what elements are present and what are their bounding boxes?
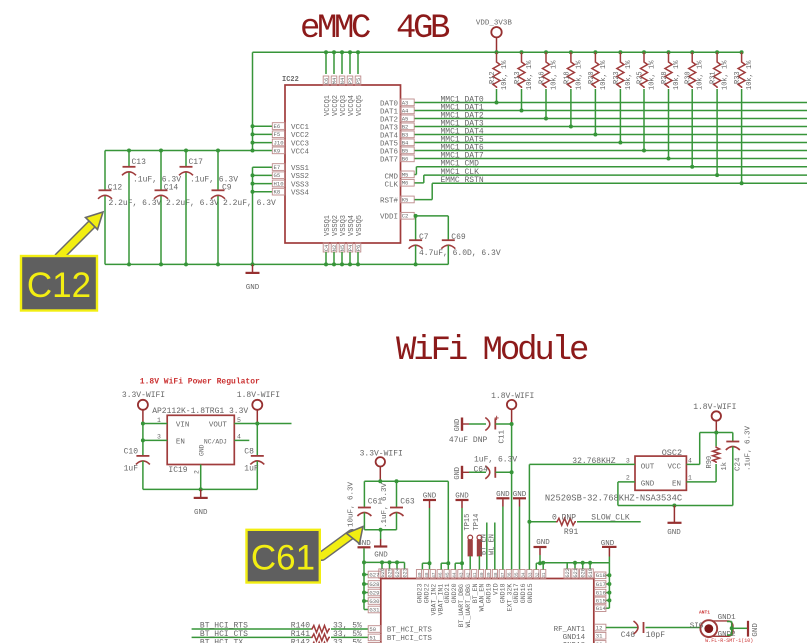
svg-text:R31: R31 [710,71,718,84]
svg-text:N4: N4 [340,78,346,84]
svg-text:37: 37 [501,572,506,578]
pin N2 VSSQ2 [331,215,340,266]
svg-text:DAT1: DAT1 [380,108,399,116]
svg-text:3: 3 [626,457,630,464]
wire 1.8V osc rail [700,431,733,435]
label pin name EXT_32K [506,584,513,612]
svg-text:IC22: IC22 [282,76,299,84]
svg-text:G27: G27 [369,571,379,578]
wire VOUT pin5 [234,422,291,426]
svg-text:G25: G25 [388,568,394,577]
svg-text:G30: G30 [369,598,380,605]
pin G29 [364,589,381,596]
pin 41 module top [472,570,479,579]
svg-text:10uF, 6.3V: 10uF, 6.3V [348,481,356,527]
svg-text:G18: G18 [596,572,606,579]
wire net MMC1_DAT4 [414,127,807,136]
pin 44 module top [451,570,458,579]
pin 43 module top [458,570,465,579]
svg-text:C10: C10 [124,447,139,456]
svg-text:VDDI: VDDI [380,214,398,222]
svg-text:GND14: GND14 [563,634,586,642]
capacitor C63 [381,481,415,530]
resistor R28 10k 1% [661,50,681,160]
svg-text:0 DNP: 0 DNP [552,514,576,523]
svg-text:DAT7: DAT7 [380,156,398,164]
wire 3.3V to module pins 46 45 [441,481,450,569]
svg-text:10k, 1%: 10k, 1% [526,60,534,90]
svg-text:B5: B5 [402,147,409,154]
svg-text:GND: GND [374,552,388,560]
label pin name BT_EN [472,583,479,603]
svg-text:C2: C2 [402,213,409,220]
svg-text:C6: C6 [324,78,330,84]
pin 30 [563,641,606,643]
svg-text:1.8V-WIFI: 1.8V-WIFI [237,391,280,400]
svg-text:RF_ANT1: RF_ANT1 [554,626,586,634]
svg-text:DAT5: DAT5 [380,140,399,148]
resistor R33 10k 1% [734,50,754,185]
svg-text:RST#: RST# [380,197,399,205]
svg-text:G21: G21 [573,568,579,577]
svg-text:10k, 1%: 10k, 1% [746,60,754,90]
wire net BT_HCI_TX with resistor R142 [192,638,369,643]
svg-text:P3: P3 [348,78,354,84]
svg-text:VSSQ2: VSSQ2 [332,215,340,236]
svg-text:42: 42 [466,572,471,578]
pin B6 DAT7 [380,155,414,164]
svg-text:R18: R18 [563,71,571,84]
svg-text:10k, 1%: 10k, 1% [697,60,705,90]
pin G28 [364,581,381,588]
svg-text:38: 38 [494,572,499,578]
wire net EMMC_RSTN [432,176,807,185]
wire left gnd vertical [362,548,366,609]
ground module pins 44 43 [455,493,469,570]
svg-text:GND: GND [641,480,655,488]
resistor R23 10k 1% [613,50,633,144]
svg-text:G29: G29 [369,589,379,596]
svg-text:VCC3: VCC3 [291,140,310,148]
svg-text:10k, 1%: 10k, 1% [673,60,681,90]
svg-text:R13: R13 [514,71,522,84]
power symbol 3.3V-WIFI regulator input [122,391,165,423]
pin 31 module top [541,570,548,579]
op-amp OSC2 oscillator body [626,448,692,491]
svg-text:VDD_3V3B: VDD_3V3B [476,20,513,28]
svg-text:R23: R23 [613,71,621,84]
svg-text:M5: M5 [402,171,409,178]
svg-text:A5: A5 [402,115,409,122]
svg-text:C13: C13 [132,158,147,167]
callout arrow to C61 [322,527,363,556]
svg-text:49: 49 [418,572,423,578]
pin B5 DAT6 [380,147,414,156]
svg-text:R16: R16 [539,71,547,84]
capacitor C69 [441,216,466,265]
ground module pin 35 [513,491,527,570]
test point TP15 [464,514,473,570]
svg-text:VSSQ1: VSSQ1 [324,215,332,236]
svg-text:10k, 1%: 10k, 1% [501,60,509,90]
svg-text:M6: M6 [402,180,409,187]
pin G16 [595,589,606,596]
power symbol 1.8V-WIFI module [491,392,534,424]
svg-text:G16: G16 [596,590,606,597]
pin G25 [386,568,393,578]
op-amp IC19 regulator AP2112K [152,407,248,475]
svg-text:C46: C46 [621,631,636,640]
node WL_EN stub [488,523,496,570]
svg-text:P5: P5 [356,78,362,84]
svg-text:SIG: SIG [690,622,704,630]
svg-text:10pF: 10pF [646,631,665,640]
svg-text:G31: G31 [369,606,380,613]
wire net MMC1_CMD [416,160,807,169]
pin A4 DAT1 [380,107,414,116]
ground module right [601,540,617,563]
svg-text:VSSQ5: VSSQ5 [356,215,364,236]
svg-text:G20: G20 [581,568,587,577]
svg-text:1uF, 6.3V: 1uF, 6.3V [474,455,517,464]
svg-text:P6: P6 [356,245,362,251]
capacitor C24 [726,425,753,505]
capacitor C10 [124,424,150,490]
pin 49 module top [416,570,423,579]
label pin name WL_UART_DBG [465,584,472,628]
svg-text:TP14: TP14 [473,514,481,531]
svg-text:C64: C64 [474,465,489,474]
svg-text:E7: E7 [274,164,281,171]
svg-text:N2: N2 [332,245,338,251]
svg-text:1: 1 [688,475,692,482]
svg-text:B2: B2 [402,123,409,130]
ground C61 C63 [374,530,388,560]
svg-text:C69: C69 [451,233,466,242]
svg-text:GND: GND [199,444,206,456]
power symbol 3.3V-WIFI module [360,449,403,481]
svg-text:35: 35 [515,572,520,578]
pin P4 VSSQ4 [347,215,356,266]
resistor R30 10k 1% [685,50,705,168]
wire right gnd net [541,561,609,569]
capacitor C64 1uF [454,424,518,480]
pin G18 [595,572,606,579]
pin 42 module top [465,570,472,579]
svg-text:VCCQ3: VCCQ3 [340,95,348,116]
svg-text:1uF: 1uF [244,465,259,474]
pin G27 [364,571,381,578]
pin M4 VCCQ2 [331,50,340,116]
svg-text:J10: J10 [274,139,285,146]
label pin name GND17 [513,583,520,603]
wire C61 C63 bottom [364,528,396,532]
svg-text:R20: R20 [588,71,596,84]
label pin name GND21 [444,583,451,603]
pin 31 GND14 [563,632,606,641]
pin G20 [580,568,587,578]
svg-text:NC/ADJ: NC/ADJ [204,439,227,446]
wire CMD step to pin M5 [414,167,416,175]
pin N4 VCCQ3 [339,50,348,116]
svg-text:4: 4 [688,457,692,464]
op WiFi module body [381,579,594,643]
svg-text:GND: GND [246,284,260,292]
ground OSC [667,506,681,538]
svg-text:B4: B4 [402,139,409,146]
svg-text:F5: F5 [274,131,281,138]
pin G22 [564,568,571,578]
svg-text:VSS3: VSS3 [291,181,310,189]
svg-text:33: 33 [528,572,533,578]
svg-text:WiFi Module: WiFi Module [396,332,588,370]
svg-text:K5: K5 [402,196,409,203]
label pin name GND15 [527,583,534,603]
pin 50 BT_HCI_RTS [368,626,432,635]
svg-text:VSSQ3: VSSQ3 [340,215,348,236]
svg-text:H10: H10 [274,180,285,187]
power symbol 1.8V-WIFI osc [693,403,736,433]
pin 35 module top [513,570,520,579]
svg-text:EN: EN [176,439,185,447]
svg-text:GND: GND [454,467,462,480]
svg-text:R91: R91 [564,528,579,537]
svg-text:VSS1: VSS1 [291,165,310,173]
label pin name GND23 [417,583,424,603]
pin G5 VSS2 [253,172,310,181]
svg-text:+: + [494,415,499,424]
svg-text:VSS2: VSS2 [291,173,309,181]
pin 45 module top [444,570,451,579]
wire antenna gnd [727,622,747,636]
wire CLK step to pin M6 [414,175,424,183]
capacitor C17 [179,151,238,265]
label pin name GND18 [499,583,506,603]
svg-text:3.3V-WIFI: 3.3V-WIFI [122,391,165,400]
capacitor C9 [211,151,276,265]
pin P5 VCCQ5 [355,50,364,116]
svg-text:4.7uF, 6.0D, 6.3V: 4.7uF, 6.0D, 6.3V [419,249,501,258]
svg-text:2: 2 [626,475,630,482]
svg-text:R28: R28 [661,71,669,84]
svg-text:ANT1: ANT1 [699,610,710,616]
wire net MMC1_DAT1 [414,103,807,112]
pin A3 DAT0 [380,99,414,108]
pin K8 VSS4 [253,188,310,197]
svg-text:VCCQ2: VCCQ2 [332,95,340,116]
resistor R12 10k 1% [489,52,509,104]
pin 39 module top [485,570,492,579]
svg-text:TP15: TP15 [464,514,472,531]
callout arrow to C12 [59,212,103,257]
svg-text:32.768KHZ: 32.768KHZ [572,457,615,466]
label pin name GND20 [451,583,458,603]
svg-text:VCC2: VCC2 [291,132,309,140]
svg-text:CMD: CMD [384,173,398,181]
pin 32 module top [534,570,541,579]
wire net MMC1_DAT5 [414,135,807,144]
antenna ANT1 [690,610,754,643]
svg-text:GND: GND [752,623,760,637]
svg-text:1k: 1k [721,462,729,470]
resistor R25 10k 1% [637,50,657,152]
svg-text:K8: K8 [274,189,281,196]
svg-text:B6: B6 [402,155,409,162]
pin 12 RF_ANT1 [554,624,606,634]
svg-text:C12: C12 [27,266,91,305]
pin G26 [379,568,386,578]
svg-text:10k, 1%: 10k, 1% [722,60,730,90]
wire net BT_HCI_RTS with resistor R140 [192,622,369,633]
svg-text:DAT6: DAT6 [380,148,399,156]
svg-text:G17: G17 [596,581,606,588]
pin C4 VSSQ1 [323,215,332,266]
svg-text:2.2uF, 6.3V: 2.2uF, 6.3V [166,199,219,208]
pin C2 VDDI [380,212,414,221]
svg-text:12: 12 [596,625,603,632]
capacitor C13 [122,151,181,265]
wire 3.3V-WIFI distribution [364,479,448,483]
wire RSTN step to pin K5 [414,183,432,199]
capacitor C8 [244,424,264,490]
svg-text:R30: R30 [685,71,693,84]
resistor R91 0 DNP [529,514,640,538]
pin 46 module top [437,570,444,579]
pin G17 [595,581,606,588]
power symbol VDD_3V3B [476,20,513,53]
wire net BT_HCI_CTS with resistor R141 [192,630,369,641]
pin M5 CMD [384,171,414,181]
svg-text:36: 36 [508,572,513,578]
svg-text:C12: C12 [108,183,123,192]
wire net MMC1_CLK [424,168,807,177]
svg-text:C24: C24 [735,457,743,471]
pin 38 module top [492,570,499,579]
pin K9 VCC4 [253,147,310,156]
svg-text:DAT2: DAT2 [380,116,398,124]
svg-text:43: 43 [459,572,464,578]
label pin name WLAN_EN [479,584,486,612]
pin G14 [595,605,607,612]
pin P6 VSSQ5 [355,215,364,266]
pin 51 BT_HCI_CTS [368,634,432,643]
svg-text:VCCQ4: VCCQ4 [348,95,356,116]
svg-text:C63: C63 [400,498,415,507]
svg-text:4GB: 4GB [396,10,450,48]
svg-text:C8: C8 [244,447,254,456]
pin B3 DAT4 [380,131,414,140]
ground eMMC rail [246,264,260,292]
capacitor C7 [409,214,501,265]
ground antenna [748,621,760,637]
svg-text:P4: P4 [348,245,354,251]
svg-text:33, 5%: 33, 5% [333,638,362,643]
wire gnd to top G pins [364,560,405,569]
ground module pins 49 48 [422,493,436,570]
capacitor C46 10pF [606,621,701,640]
svg-text:DAT3: DAT3 [380,124,399,132]
wire GND pin2 [200,465,202,490]
pin 48 module top [423,570,430,579]
svg-text:G23: G23 [403,568,409,577]
wire OSC VCC pin4 [686,433,699,465]
svg-text:34: 34 [522,572,527,578]
svg-text:47uF DNP: 47uF DNP [449,436,488,445]
svg-text:VCC: VCC [667,464,681,472]
svg-text:R90: R90 [706,456,714,469]
svg-text:41: 41 [473,572,478,578]
svg-text:eMMC: eMMC [300,10,370,48]
capacitor C14 [154,151,219,265]
svg-text:31: 31 [596,633,603,640]
svg-text:50: 50 [369,626,376,633]
svg-text:51: 51 [369,634,376,641]
svg-text:R25: R25 [637,71,645,84]
svg-text:VCC1: VCC1 [291,124,310,132]
pin E6 VCC1 [253,123,310,132]
svg-text:40: 40 [480,572,485,578]
pin G24 [394,568,401,578]
svg-text:AP2112K-1.8TRG1 3.3V: AP2112K-1.8TRG1 3.3V [152,407,248,416]
svg-text:R12: R12 [489,71,497,84]
wire OSC GND pin2 [618,482,733,508]
svg-text:1uF: 1uF [124,465,139,474]
svg-text:VOUT: VOUT [209,422,228,430]
resistor R31 10k 1% [710,50,730,177]
svg-text:10k, 1%: 10k, 1% [625,60,633,90]
pin G15 [595,597,606,604]
svg-text:10k, 1%: 10k, 1% [600,60,608,90]
svg-text:VSSQ4: VSSQ4 [348,215,356,236]
svg-text:2.2uF, 6.3V: 2.2uF, 6.3V [223,199,276,208]
svg-text:C11: C11 [499,429,507,443]
svg-text:VIN: VIN [176,422,190,430]
svg-text:OUT: OUT [641,464,655,472]
svg-text:44: 44 [453,572,458,578]
resistor R13 10k 1% [514,50,534,112]
pin 37 module top [499,570,506,579]
svg-text:GND15: GND15 [527,583,534,603]
wire EN pin3 [141,438,167,442]
svg-text:VCCQ1: VCCQ1 [324,95,332,116]
wire net MMC1_DAT7 [414,151,807,160]
pin 47 module top [430,570,437,579]
svg-text:C14: C14 [164,183,179,192]
svg-text:DAT4: DAT4 [380,132,399,140]
svg-text:G15: G15 [596,597,606,604]
svg-text:VCCQ5: VCCQ5 [356,95,364,116]
pin 33 module top [527,570,534,579]
wire 32.768KHZ net [527,457,635,570]
svg-text:VSS4: VSS4 [291,190,310,198]
resistor R16 10k 1% [539,50,559,120]
svg-text:G24: G24 [395,568,401,577]
pin H10 VSS3 [253,180,310,189]
svg-text:C61: C61 [251,539,315,578]
svg-text:R33: R33 [734,71,742,84]
label pin name VID [493,583,500,595]
label pin name GND19 [486,583,493,603]
svg-text:10k, 1%: 10k, 1% [551,60,559,90]
pin A5 DAT2 [380,115,414,124]
pin G23 [401,568,408,578]
svg-text:EMMC_RSTN: EMMC_RSTN [441,176,484,185]
svg-text:A3: A3 [402,99,409,106]
label pin name BT_UART_DBG [458,584,465,628]
svg-text:32: 32 [535,572,540,578]
svg-text:BT_HCI_CTS: BT_HCI_CTS [387,635,433,643]
capacitor C61 [348,481,383,530]
